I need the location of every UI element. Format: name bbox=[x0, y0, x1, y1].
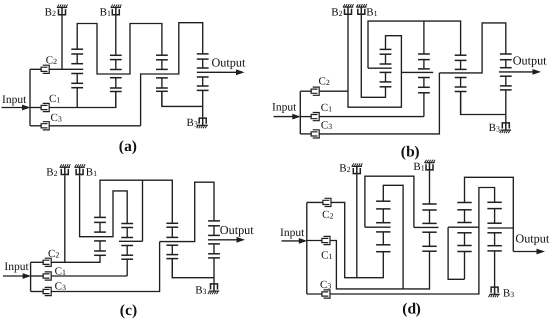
svg-text:B1: B1 bbox=[366, 7, 377, 19]
svg-text:B1: B1 bbox=[100, 7, 111, 19]
planetary gear set 3 (c) bbox=[166, 223, 178, 277]
svg-text:Output: Output bbox=[212, 56, 246, 70]
wire C2 to gear set 1 carrier (a) bbox=[49, 68, 83, 70]
svg-text:B1: B1 bbox=[86, 167, 97, 179]
gear2 mid wire (d) bbox=[414, 226, 439, 228]
clutch C2 (b) bbox=[300, 87, 319, 95]
input shaft bus (a) bbox=[29, 69, 31, 126]
svg-text:Output: Output bbox=[513, 53, 547, 67]
gear3 mid to gear3 bottom link (d) bbox=[448, 227, 464, 279]
clutch C1 (b) bbox=[300, 113, 319, 121]
output arrow (c) bbox=[208, 237, 245, 243]
wire C2 / B2 to gear set 1 bottom (d) bbox=[331, 202, 383, 277]
svg-text:Input: Input bbox=[2, 94, 27, 106]
brake B3 (a) bbox=[197, 118, 208, 128]
svg-text:B2: B2 bbox=[339, 163, 350, 175]
wire gear3 bottom to B3 node (a) bbox=[162, 91, 203, 106]
planetary gear set 1 (a) bbox=[71, 49, 83, 107]
top bus wire (b) bbox=[368, 21, 461, 68]
brake B2 shaft (c) bbox=[64, 175, 66, 262]
svg-text:Output: Output bbox=[220, 223, 254, 237]
wire C3 (b) bbox=[319, 73, 439, 134]
planetary gear set 4 (c) bbox=[208, 221, 220, 283]
svg-text:Input: Input bbox=[272, 102, 297, 114]
svg-text:B1: B1 bbox=[413, 161, 424, 173]
output arrow (a) bbox=[197, 69, 245, 75]
svg-text:): ) bbox=[414, 143, 419, 160]
gear3 bottom to B3 node (c) bbox=[172, 259, 214, 278]
planetary gear set 2 (b) bbox=[418, 54, 430, 117]
input shaft bus (c) bbox=[30, 262, 32, 291]
planetary gear set 2 (a) bbox=[110, 55, 122, 107]
wire C1 to gear set 2 bottom (b) bbox=[319, 116, 424, 118]
brake B2 shaft (d) bbox=[356, 174, 358, 277]
svg-text:C2: C2 bbox=[46, 55, 57, 67]
svg-text:B3: B3 bbox=[489, 122, 500, 134]
output arrow (d) bbox=[513, 249, 545, 255]
gear2 mid riser (c) bbox=[142, 180, 144, 241]
wire C1 to gear set 2 bottom (a) bbox=[49, 92, 116, 108]
gear3 mid wire (d) bbox=[448, 226, 479, 228]
input arrow (d) bbox=[282, 238, 308, 244]
input shaft bus (d) bbox=[306, 202, 308, 294]
clutch C2 (c) bbox=[31, 258, 52, 266]
brake B1 (d) bbox=[424, 160, 435, 170]
brake B3 (c) bbox=[208, 284, 219, 294]
clutch C3 (a) bbox=[30, 122, 49, 130]
input arrow (b) bbox=[274, 114, 301, 120]
planetary gear set 3 (a) bbox=[156, 55, 168, 106]
clutch C1 (c) bbox=[31, 272, 52, 280]
svg-text:C3: C3 bbox=[321, 120, 332, 132]
clutch C2 (a) bbox=[30, 65, 49, 73]
C1 riser to gear set 1 top (d) bbox=[383, 185, 403, 289]
planetary gear set 3 (b) bbox=[455, 55, 467, 114]
gear2 mid wire (c) bbox=[119, 240, 143, 242]
gear4 mid wire (d) bbox=[488, 227, 514, 229]
wire C2 to gear set 1 bottom (c) bbox=[51, 255, 100, 262]
input arrow (c) bbox=[3, 273, 31, 279]
gear2 mid wire (b) bbox=[401, 71, 433, 73]
svg-text:Output: Output bbox=[515, 231, 549, 245]
planetary gear set 4 (b) bbox=[500, 54, 512, 122]
planetary gear set 1 (c) bbox=[94, 217, 106, 255]
C3 / gear3 mid / gear4 top wire (c) bbox=[160, 182, 214, 241]
planetary gear set 2 (c) bbox=[121, 224, 133, 277]
brake B1 (a) bbox=[111, 5, 122, 15]
wire C3 (a) bbox=[49, 125, 140, 127]
input shaft bus (b) bbox=[299, 91, 301, 134]
svg-text:): ) bbox=[132, 138, 137, 155]
input arrow (a) bbox=[2, 105, 31, 111]
svg-text:B3: B3 bbox=[187, 117, 198, 129]
svg-text:Input: Input bbox=[280, 227, 305, 239]
planetary gear set 4 (a) bbox=[197, 54, 209, 118]
svg-text:B3: B3 bbox=[503, 288, 514, 300]
wire C3 (d) bbox=[330, 188, 495, 295]
gear1 mid wire (d) bbox=[365, 226, 391, 228]
svg-text:B2: B2 bbox=[46, 166, 57, 178]
svg-text:C3: C3 bbox=[51, 112, 62, 124]
svg-text:C3: C3 bbox=[320, 279, 331, 291]
brake B1 shaft to gear set 2 (a) bbox=[115, 15, 117, 55]
brake B1 to gear set 2 top (d) bbox=[429, 171, 431, 204]
C3 / gear3 mid / gear4 top wire (b) bbox=[439, 23, 505, 73]
svg-text:Input: Input bbox=[4, 261, 29, 273]
svg-text:C1: C1 bbox=[321, 102, 332, 114]
svg-text:): ) bbox=[416, 301, 421, 318]
svg-text:C2: C2 bbox=[48, 248, 59, 260]
brake B2 shaft (a) bbox=[61, 15, 63, 69]
brake B2 (b) bbox=[343, 4, 354, 14]
gear set 2 top shaft (b) bbox=[423, 21, 425, 54]
clutch C3 (c) bbox=[31, 287, 52, 295]
svg-text:B2: B2 bbox=[45, 7, 56, 19]
wire C3 riser / gear3 mid / gear4 top (a) bbox=[141, 23, 203, 126]
brake B2 (c) bbox=[60, 164, 71, 174]
gear1 mid wire (b) bbox=[368, 67, 392, 69]
clutch C3 (b) bbox=[300, 130, 319, 138]
svg-text:C3: C3 bbox=[55, 281, 66, 293]
clutch C2 (d) bbox=[307, 198, 331, 206]
svg-text:C2: C2 bbox=[319, 76, 330, 88]
brake B1 (c) bbox=[74, 164, 85, 174]
svg-text:): ) bbox=[132, 302, 137, 319]
svg-text:B3: B3 bbox=[195, 285, 206, 297]
svg-text:C1: C1 bbox=[321, 250, 332, 262]
brake B1 / gear1 mid / gear2 top (c) bbox=[80, 175, 128, 237]
brake B2 (a) bbox=[57, 5, 68, 15]
planetary gear set 4 (d) bbox=[487, 202, 501, 286]
brake B2 / C2 to gear set 1 top (b) bbox=[348, 15, 401, 107]
gear1 mid to gear2 mid link (d) bbox=[365, 176, 414, 227]
clutch C1 (a) bbox=[30, 103, 49, 111]
clutch C3 (d) bbox=[307, 290, 330, 298]
svg-text:B2: B2 bbox=[331, 7, 342, 19]
gear3 top / output riser (d) bbox=[465, 177, 514, 251]
brake B1 to gear set 1 bottom (b) bbox=[361, 15, 385, 97]
brake B1 (b) bbox=[356, 4, 367, 14]
top bus wire (c) bbox=[100, 180, 172, 223]
clutch C1 (d) bbox=[307, 236, 330, 244]
planetary gear set 1 (d) bbox=[376, 201, 390, 252]
planetary gear set 3 (d) bbox=[457, 203, 471, 280]
planetary gear set 2 (d) bbox=[422, 204, 436, 251]
svg-text:C1: C1 bbox=[49, 93, 60, 105]
gear3 bottom to B3 node (b) bbox=[461, 92, 506, 115]
output arrow (b) bbox=[499, 69, 541, 75]
brake B2 (d) bbox=[352, 163, 363, 173]
brake B3 (d) bbox=[489, 287, 500, 297]
svg-text:C2: C2 bbox=[322, 209, 333, 221]
wire C2 (b) bbox=[319, 90, 348, 92]
wire C1 to gear set 2 bottom (c) bbox=[51, 275, 127, 277]
planetary gear set 1 (b) bbox=[380, 49, 392, 86]
wire gear1 top / gear2 mid / gear3 top (a) bbox=[77, 24, 162, 75]
wire C1 to gear1 top and gear2 bottom (d) bbox=[330, 241, 430, 289]
wire C3 (c) bbox=[51, 242, 159, 292]
brake B3 (b) bbox=[500, 123, 511, 133]
